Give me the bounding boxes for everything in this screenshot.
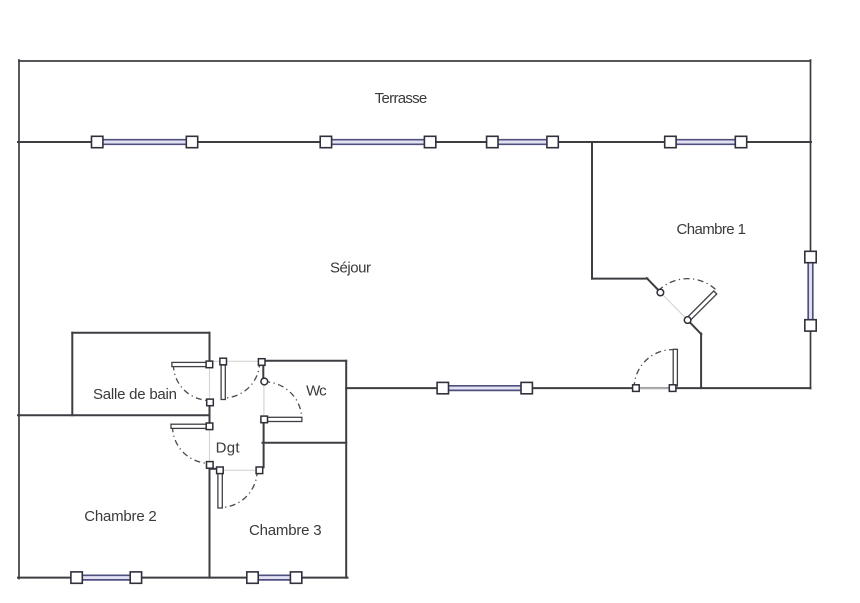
svg-text:Chambre 1: Chambre 1 bbox=[676, 221, 746, 238]
svg-text:Dgt: Dgt bbox=[216, 440, 241, 457]
svg-text:Séjour: Séjour bbox=[330, 260, 371, 277]
svg-text:Chambre 2: Chambre 2 bbox=[84, 508, 157, 525]
svg-text:Terrasse: Terrasse bbox=[375, 90, 428, 107]
svg-text:Salle de bain: Salle de bain bbox=[93, 386, 177, 403]
svg-text:Chambre 3: Chambre 3 bbox=[249, 522, 322, 539]
svg-text:Wc: Wc bbox=[306, 382, 327, 399]
